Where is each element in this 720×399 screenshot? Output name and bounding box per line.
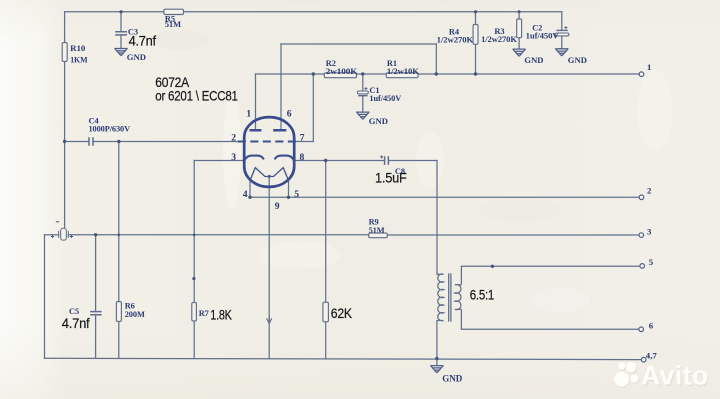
wire C1 riser <box>362 74 364 91</box>
svg-text:8: 8 <box>300 152 305 163</box>
wire top bus <box>65 11 562 13</box>
node R7 riser / input row junction <box>193 234 196 237</box>
wire grid row right segment to tube pin 2 <box>93 141 245 143</box>
wire heater bar to terminal 2 <box>250 196 639 198</box>
tube V1 envelope <box>244 117 294 187</box>
svg-text:2: 2 <box>647 186 652 196</box>
wire C8 to transformer corner <box>389 160 437 162</box>
node R4 top bus junction <box>474 10 477 13</box>
Avito watermark shadow <box>615 362 710 392</box>
pin 9 arrow <box>267 316 272 324</box>
transformer T1 <box>437 266 462 329</box>
svg-text:2w100K: 2w100K <box>326 67 358 76</box>
tube heater zigzag <box>250 168 289 181</box>
wire R7 riser upper <box>193 161 195 303</box>
svg-text:GND: GND <box>369 116 388 126</box>
wire C3 ground stub <box>120 35 122 48</box>
svg-text:1.5uF: 1.5uF <box>375 171 407 186</box>
svg-text:4,7: 4,7 <box>646 351 658 361</box>
svg-text:7: 7 <box>300 132 305 143</box>
resistor R9 <box>369 233 388 238</box>
svg-text:4: 4 <box>243 189 248 200</box>
wire C2 drop <box>561 12 563 30</box>
tube plate bars <box>250 129 287 132</box>
ground below C1 <box>356 112 369 119</box>
wire pin 1 riser <box>255 74 257 130</box>
capacitor C1 plates <box>357 87 368 96</box>
node C5 / input row junction <box>94 233 97 236</box>
terminal 4,7 <box>641 351 657 362</box>
svg-text:1: 1 <box>246 108 251 119</box>
svg-text:R7: R7 <box>199 309 209 318</box>
capacitor C5 plates <box>90 312 101 315</box>
svg-text:1/2w270K: 1/2w270K <box>437 35 474 44</box>
wire R7 riser lower <box>193 321 195 359</box>
wire input row left <box>45 234 59 236</box>
capacitor C2 plates <box>556 26 569 36</box>
svg-text:GND: GND <box>524 55 543 65</box>
resistor R6 <box>116 302 121 322</box>
capacitor C3 plates <box>115 32 127 35</box>
svg-text:51M: 51M <box>369 226 385 235</box>
resistor R1 <box>386 73 418 78</box>
svg-text:9: 9 <box>275 201 280 212</box>
wire pin 6 riser <box>280 44 282 130</box>
wire C3 riser <box>120 12 122 32</box>
Avito watermark logo circles <box>614 362 638 386</box>
svg-text:1.8K: 1.8K <box>210 308 232 323</box>
node transformer / bottom bus junction <box>435 357 438 360</box>
heater centre junction <box>268 175 271 178</box>
svg-text:2: 2 <box>231 132 236 143</box>
ground below C2 <box>555 49 568 56</box>
wire secondary bottom to terminal 6 <box>461 328 639 330</box>
wire plate row pin1 to R2 <box>256 73 325 75</box>
capacitor C4 plates <box>89 137 93 146</box>
wire R9 to terminal 3 <box>387 234 639 236</box>
wire R4 bottom stub <box>475 44 477 74</box>
terminal 5 <box>640 257 654 268</box>
primary winding <box>437 274 444 321</box>
wire pin 7 riser <box>312 74 314 142</box>
capacitor C8 plates <box>380 155 388 165</box>
svg-text:5: 5 <box>649 257 654 267</box>
resistor R5 <box>164 9 184 14</box>
wire pin 5 leg <box>288 181 290 198</box>
wire pin 4 leg <box>249 181 251 198</box>
wire bottom bus <box>45 358 642 359</box>
svg-text:Avito: Avito <box>641 361 709 391</box>
wire input left drop <box>44 235 46 359</box>
wire 62K riser lower <box>325 322 327 359</box>
svg-text:R10: R10 <box>70 44 85 53</box>
wire C2 ground stub <box>561 36 563 49</box>
svg-text:62K: 62K <box>331 306 352 321</box>
svg-text:4.7nf: 4.7nf <box>62 316 90 331</box>
tube cathode left <box>244 156 264 162</box>
wire secondary top to terminal 5 <box>461 265 640 267</box>
node on R7 riser <box>192 277 195 280</box>
node pin6 link / plate row junction <box>435 72 438 75</box>
node left rail / grid row junction <box>63 140 66 143</box>
core <box>449 273 451 321</box>
svg-text:or 6201 \ ECC81: or 6201 \ ECC81 <box>155 88 237 103</box>
wire pin 6 link drop <box>435 44 437 74</box>
ground below transformer <box>430 366 443 373</box>
wire R4 top stub <box>475 12 477 25</box>
resistor R4 <box>473 25 478 45</box>
svg-text:200M: 200M <box>125 310 145 319</box>
wire pin 9 drop <box>268 176 270 358</box>
svg-text:1/2w10K: 1/2w10K <box>387 67 420 76</box>
node R3 top bus junction <box>518 10 521 13</box>
wire transformer primary riser <box>436 161 438 275</box>
node R6 riser / input row junction <box>118 234 121 237</box>
resistor R7 <box>192 303 197 321</box>
node R4 bottom / plate row junction <box>474 72 477 75</box>
svg-text:1000P/630V: 1000P/630V <box>89 125 131 134</box>
svg-text:1uf/450V: 1uf/450V <box>526 31 559 40</box>
svg-text:3: 3 <box>231 152 236 163</box>
node C1 / plate row junction <box>361 72 364 75</box>
wire pin 3 row <box>194 160 245 162</box>
svg-text:GND: GND <box>568 55 587 65</box>
wire R2 to R1 <box>357 73 387 75</box>
terminal 3 <box>639 226 652 237</box>
wire R1 to terminal 1 <box>418 73 639 75</box>
svg-text:51M: 51M <box>165 20 181 29</box>
svg-text:6: 6 <box>287 108 292 119</box>
resistor R3 <box>517 19 522 38</box>
secondary winding <box>455 266 462 329</box>
input transducer <box>51 222 73 240</box>
terminal 2 <box>639 186 652 200</box>
svg-text:1uf/450V: 1uf/450V <box>369 94 401 103</box>
svg-text:1/2w270K: 1/2w270K <box>481 35 517 44</box>
wire left rail from top bus to input <box>64 12 66 229</box>
wire C5 riser lower <box>95 315 97 359</box>
node 62K riser / cathode row junction <box>324 159 327 162</box>
wire input row to R9 <box>68 234 368 236</box>
resistor R2 <box>324 73 356 78</box>
terminal 6 <box>639 321 654 332</box>
resistor R10 <box>62 43 67 62</box>
tube cathode right <box>275 156 295 162</box>
wire grid row left segment <box>65 141 89 143</box>
wire R6 riser lower <box>118 321 120 358</box>
svg-text:6.5:1: 6.5:1 <box>470 287 494 302</box>
svg-text:GND: GND <box>127 52 146 62</box>
wire R3 ground stub <box>518 38 520 49</box>
wire pin 8 row to C8 <box>294 160 385 162</box>
wire C5 riser upper <box>95 235 97 312</box>
wire pin 7 stub <box>296 141 314 143</box>
svg-text:5: 5 <box>294 189 299 200</box>
svg-text:GND: GND <box>442 373 463 383</box>
svg-text:4.7nf: 4.7nf <box>129 33 157 48</box>
wire 62K riser upper <box>325 161 327 303</box>
node pin5 / heater bar junction <box>287 196 290 199</box>
svg-text:3: 3 <box>647 226 652 236</box>
svg-text:1KM: 1KM <box>70 56 87 65</box>
paper smudges <box>223 70 673 312</box>
node C3 top bus junction <box>119 10 122 13</box>
tube grid dashed line <box>238 140 297 142</box>
node pin7 riser / plate row junction <box>312 72 315 75</box>
wire R3 top stub <box>518 12 520 19</box>
terminal 1 <box>639 62 651 76</box>
ground below C3 <box>114 49 127 56</box>
node pin4 / heater bar junction <box>248 196 251 199</box>
svg-text:1: 1 <box>647 62 651 72</box>
ground below R3 <box>513 49 526 56</box>
wire ground stub below bus <box>436 359 438 366</box>
wire C1 to ground <box>362 96 364 112</box>
node secondary top junction <box>491 265 494 268</box>
wire transformer primary bottom drop <box>436 321 438 359</box>
resistor 62K <box>323 302 329 322</box>
node R6 riser / grid row junction <box>117 140 120 143</box>
svg-text:6: 6 <box>649 321 654 331</box>
wire pin 6 link top <box>281 43 436 45</box>
wire R6 riser upper <box>118 142 120 302</box>
